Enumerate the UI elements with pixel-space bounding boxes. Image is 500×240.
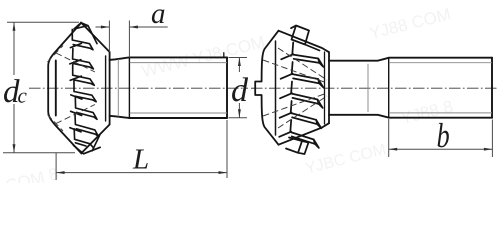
svg-text:c: c	[18, 84, 28, 108]
svg-text:b: b	[437, 117, 450, 155]
svg-text:a: a	[151, 0, 166, 30]
svg-text:L: L	[132, 144, 149, 176]
svg-text:d: d	[231, 72, 249, 109]
